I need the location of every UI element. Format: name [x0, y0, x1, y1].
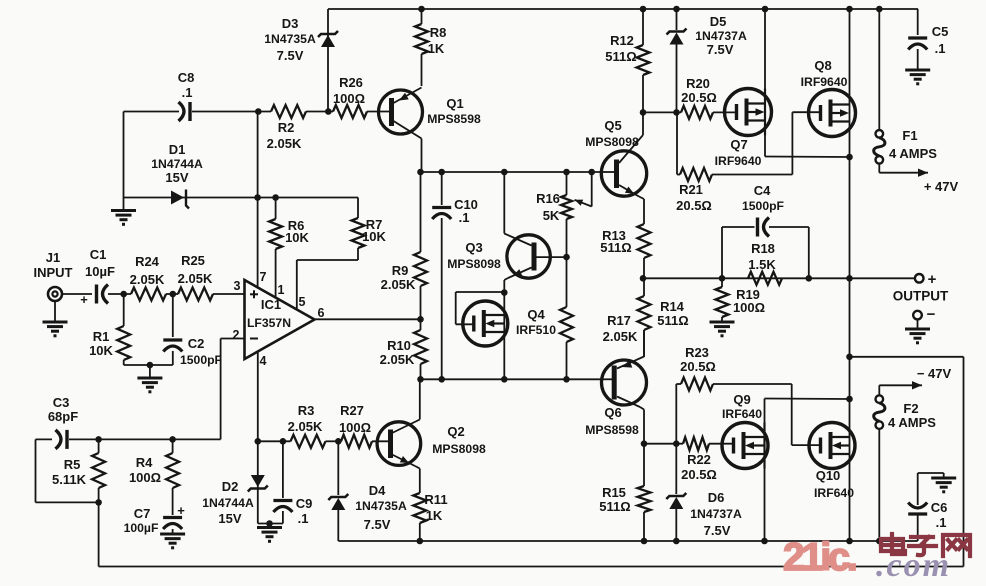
svg-text:C1: C1 [90, 247, 107, 262]
svg-text:5K: 5K [543, 208, 560, 223]
svg-text:IRF510: IRF510 [516, 323, 556, 337]
svg-text:R11: R11 [424, 492, 447, 507]
svg-text:R26: R26 [339, 75, 363, 90]
svg-text:2.05K: 2.05K [603, 329, 638, 344]
svg-text:− 47V: − 47V [917, 366, 952, 381]
svg-text:1N4744A: 1N4744A [202, 496, 254, 510]
svg-text:Q3: Q3 [465, 240, 482, 255]
svg-text:Q1: Q1 [446, 96, 463, 111]
svg-text:1N4735A: 1N4735A [264, 32, 316, 46]
svg-text:IRF640: IRF640 [814, 486, 854, 500]
svg-text:MPS8098: MPS8098 [447, 257, 501, 271]
svg-text:.com: .com [876, 547, 951, 581]
svg-text:20.5Ω: 20.5Ω [676, 198, 712, 213]
svg-text:C2: C2 [188, 336, 205, 351]
svg-text:D2: D2 [222, 479, 239, 494]
svg-text:Q8: Q8 [814, 58, 831, 73]
svg-text:15V: 15V [218, 511, 241, 526]
svg-text:MPS8598: MPS8598 [585, 423, 639, 437]
svg-text:21ic.: 21ic. [783, 536, 856, 579]
svg-text:1N4735A: 1N4735A [355, 499, 407, 513]
svg-text:2.05K: 2.05K [381, 277, 416, 292]
svg-text:1500pF: 1500pF [180, 353, 222, 367]
svg-text:7: 7 [260, 270, 267, 284]
svg-text:20.5Ω: 20.5Ω [681, 90, 717, 105]
svg-text:J1: J1 [46, 250, 60, 265]
svg-text:4 AMPS: 4 AMPS [889, 146, 937, 161]
svg-text:10µF: 10µF [85, 264, 115, 279]
svg-text:.1: .1 [936, 515, 947, 530]
svg-text:Q6: Q6 [604, 405, 621, 420]
svg-text:511Ω: 511Ω [600, 240, 631, 255]
svg-text:15V: 15V [165, 170, 188, 185]
svg-text:C5: C5 [932, 24, 949, 39]
svg-text:R21: R21 [679, 182, 703, 197]
svg-text:Q10: Q10 [816, 468, 841, 483]
svg-text:R15: R15 [602, 485, 626, 500]
svg-text:C6: C6 [931, 500, 948, 515]
svg-text:7.5V: 7.5V [707, 42, 734, 57]
svg-text:D5: D5 [710, 14, 727, 29]
svg-text:100Ω: 100Ω [333, 91, 365, 106]
svg-text:R9: R9 [392, 263, 409, 278]
svg-text:R8: R8 [430, 25, 447, 40]
svg-text:R1: R1 [93, 329, 110, 344]
svg-text:.1: .1 [459, 210, 470, 225]
svg-text:20.5Ω: 20.5Ω [680, 359, 716, 374]
svg-text:2.05K: 2.05K [267, 136, 302, 151]
svg-text:IRF9640: IRF9640 [801, 75, 848, 89]
svg-text:F1: F1 [902, 128, 917, 143]
svg-text:MPS8098: MPS8098 [432, 442, 486, 456]
svg-text:.1: .1 [182, 85, 193, 100]
svg-text:+: + [80, 292, 88, 307]
svg-text:1N4737A: 1N4737A [690, 507, 742, 521]
svg-text:7.5V: 7.5V [364, 517, 391, 532]
svg-text:1.5K: 1.5K [748, 257, 776, 272]
svg-text:3: 3 [234, 279, 241, 293]
svg-text:R3: R3 [298, 403, 315, 418]
svg-text:D1: D1 [169, 142, 186, 157]
svg-text:R14: R14 [660, 299, 685, 314]
svg-text:+ 47V: + 47V [924, 179, 959, 194]
svg-text:5.11K: 5.11K [52, 472, 87, 487]
svg-text:INPUT: INPUT [34, 265, 73, 280]
svg-text:10K: 10K [285, 230, 309, 245]
svg-text:4 AMPS: 4 AMPS [888, 415, 936, 430]
svg-text:100Ω: 100Ω [733, 300, 765, 315]
svg-text:−: − [927, 306, 936, 323]
svg-text:100µF: 100µF [124, 521, 159, 535]
svg-text:.1: .1 [935, 41, 946, 56]
svg-text:1K: 1K [428, 41, 445, 56]
svg-text:R17: R17 [607, 313, 631, 328]
svg-text:IC1: IC1 [261, 297, 281, 312]
svg-text:Q4: Q4 [527, 307, 545, 322]
svg-text:Q5: Q5 [604, 118, 621, 133]
svg-text:C4: C4 [754, 183, 771, 198]
svg-text:2.05K: 2.05K [380, 352, 415, 367]
svg-text:1: 1 [278, 283, 285, 297]
svg-text:100Ω: 100Ω [339, 420, 371, 435]
svg-text:2.05K: 2.05K [288, 419, 323, 434]
svg-text:R2: R2 [278, 120, 295, 135]
svg-text:1K: 1K [426, 508, 443, 523]
svg-text:1500pF: 1500pF [742, 199, 784, 213]
svg-text:D4: D4 [369, 483, 386, 498]
svg-text:C3: C3 [53, 395, 70, 410]
svg-text:C7: C7 [134, 506, 151, 521]
svg-text:6: 6 [318, 306, 325, 320]
svg-text:MPS8598: MPS8598 [427, 112, 481, 126]
svg-text:10K: 10K [362, 229, 386, 244]
svg-text:Q2: Q2 [447, 424, 464, 439]
svg-text:R25: R25 [181, 253, 205, 268]
svg-text:C8: C8 [178, 70, 195, 85]
svg-text:D6: D6 [708, 490, 725, 505]
svg-text:4: 4 [260, 354, 267, 368]
svg-text:R27: R27 [340, 403, 364, 418]
svg-text:10K: 10K [89, 343, 113, 358]
svg-text:R10: R10 [387, 338, 411, 353]
svg-text:+: + [928, 271, 937, 288]
svg-text:511Ω: 511Ω [605, 49, 636, 64]
svg-text:R23: R23 [685, 345, 709, 360]
svg-text:R24: R24 [135, 254, 160, 269]
svg-text:R18: R18 [751, 241, 775, 256]
svg-text:R5: R5 [64, 457, 81, 472]
svg-text:OUTPUT: OUTPUT [893, 289, 949, 304]
svg-text:5: 5 [299, 295, 306, 309]
svg-text:R22: R22 [687, 452, 711, 467]
svg-text:IRF640: IRF640 [722, 407, 762, 421]
svg-text:F2: F2 [903, 401, 918, 416]
svg-text:1N4744A: 1N4744A [151, 157, 203, 171]
svg-text:2.05K: 2.05K [130, 272, 165, 287]
svg-text:2: 2 [233, 328, 240, 342]
svg-text:LF357N: LF357N [247, 316, 291, 330]
svg-text:+: + [177, 503, 185, 518]
svg-text:511Ω: 511Ω [657, 313, 688, 328]
svg-text:20.5Ω: 20.5Ω [681, 467, 717, 482]
svg-text:511Ω: 511Ω [599, 499, 630, 514]
svg-text:7.5V: 7.5V [704, 523, 731, 538]
svg-text:68pF: 68pF [48, 409, 78, 424]
svg-text:R12: R12 [610, 33, 634, 48]
svg-text:R4: R4 [136, 455, 153, 470]
svg-text:MPS8098: MPS8098 [585, 135, 639, 149]
svg-text:R20: R20 [686, 76, 710, 91]
svg-text:C9: C9 [296, 496, 313, 511]
svg-text:Q9: Q9 [733, 392, 750, 407]
svg-text:IRF9640: IRF9640 [715, 154, 762, 168]
svg-text:2.05K: 2.05K [178, 271, 213, 286]
svg-text:Q7: Q7 [730, 137, 747, 152]
svg-text:1N4737A: 1N4737A [695, 29, 747, 43]
svg-text:R16: R16 [536, 191, 560, 206]
svg-text:100Ω: 100Ω [129, 470, 161, 485]
svg-text:D3: D3 [282, 16, 299, 31]
svg-text:.1: .1 [298, 511, 309, 526]
svg-text:7.5V: 7.5V [277, 48, 304, 63]
